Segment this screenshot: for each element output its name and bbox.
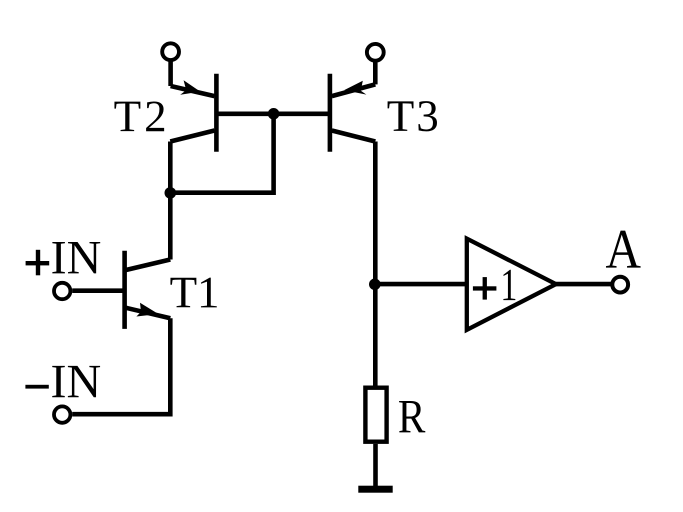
resistor R body <box>365 388 386 442</box>
ground symbol <box>358 486 392 493</box>
wire buffer output <box>556 282 611 287</box>
svg-text:IN: IN <box>51 355 102 408</box>
wire T1 emitter vertical and to -IN <box>72 318 170 414</box>
svg-text:R: R <box>398 390 426 443</box>
transistor T1 base bar <box>122 251 127 329</box>
terminal circle top-right (T3 emitter supply) <box>367 44 384 61</box>
wire T2 emitter vertical <box>168 62 173 87</box>
wire T3 emitter diagonal <box>332 84 376 96</box>
wire T2 emitter diagonal <box>171 86 215 96</box>
arrow T2 emitter <box>180 80 200 95</box>
svg-text:T2: T2 <box>114 91 167 141</box>
wire T2 collector diagonal <box>170 131 214 142</box>
wire base T2-T3 <box>216 112 330 117</box>
svg-text:T1: T1 <box>170 267 220 317</box>
wire collector vertical T2-T1 <box>168 142 173 260</box>
minus sign of -IN label <box>25 385 48 389</box>
plus sign of +1 gain label <box>473 286 497 290</box>
junction dot base node <box>268 108 280 120</box>
terminal circle output A <box>612 277 628 293</box>
wire T1 emitter diagonal <box>125 308 171 319</box>
wire T1 collector diagonal <box>125 260 171 271</box>
svg-text:IN: IN <box>51 231 102 284</box>
svg-text:T3: T3 <box>387 91 439 141</box>
plus sign of +IN label <box>26 261 50 265</box>
wire T3 collector diagonal <box>332 131 376 142</box>
wire T3 collector vertical to resistor <box>373 142 378 386</box>
transistor T3 base bar <box>328 74 333 152</box>
junction dot buffer input node <box>369 279 381 291</box>
arrow T1 emitter <box>136 303 158 317</box>
buffer amplifier +1 triangle <box>467 239 556 330</box>
svg-text:1: 1 <box>500 259 517 310</box>
wire node to buffer <box>375 282 467 287</box>
wire base node down <box>170 114 273 193</box>
transistor T2 base bar <box>214 74 219 152</box>
arrow T3 emitter <box>344 81 366 95</box>
terminal circle -IN <box>54 406 70 422</box>
terminal circle top-left (T2 emitter supply) <box>162 43 179 60</box>
terminal circle +IN <box>54 283 70 299</box>
svg-text:A: A <box>605 219 641 281</box>
wire T3 emitter vertical <box>373 62 378 84</box>
wire +IN to T1 base <box>72 288 124 293</box>
wire resistor to ground <box>373 444 378 487</box>
junction dot collector node <box>165 187 177 199</box>
